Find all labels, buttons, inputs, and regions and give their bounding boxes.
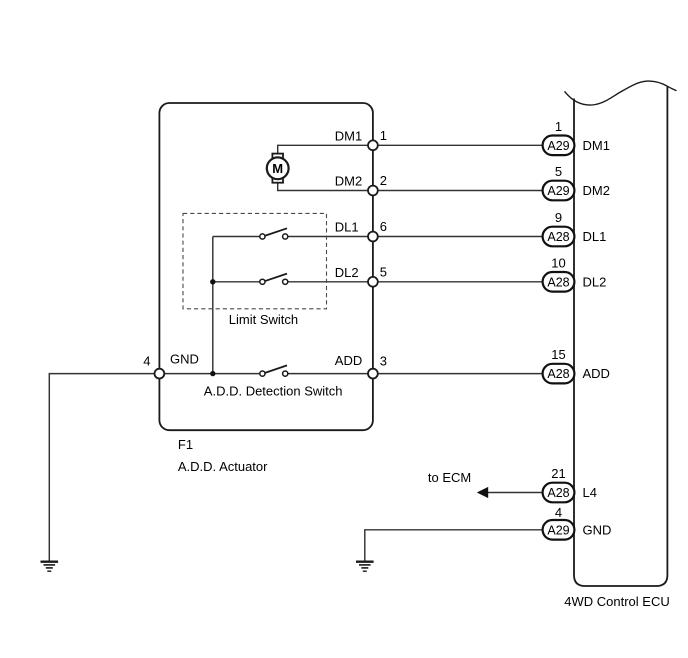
svg-text:10: 10 (551, 255, 565, 270)
wire DM1 motor to pin (278, 145, 373, 153)
motor M1 circle (267, 157, 289, 179)
svg-text:DL1: DL1 (335, 220, 359, 235)
wire vertical limit-switch bus (212, 237, 214, 374)
svg-text:6: 6 (380, 219, 387, 234)
connector A29 pin1 (543, 119, 575, 155)
svg-text:A29: A29 (547, 139, 569, 153)
svg-text:ADD: ADD (583, 366, 610, 381)
svg-text:5: 5 (380, 264, 387, 279)
wire DM2 motor to pin (278, 183, 373, 191)
svg-text:DL1: DL1 (583, 229, 607, 244)
svg-text:DM1: DM1 (335, 128, 362, 143)
svg-text:A.D.D. Detection Switch: A.D.D. Detection Switch (204, 384, 343, 399)
svg-text:A.D.D. Actuator: A.D.D. Actuator (178, 459, 268, 474)
wire DL1 corner to switch (213, 236, 260, 238)
svg-text:F1: F1 (178, 437, 193, 452)
switch ADD detection (260, 365, 288, 376)
svg-text:15: 15 (551, 347, 565, 362)
svg-text:L4: L4 (583, 485, 597, 500)
svg-text:A28: A28 (547, 367, 569, 381)
pin 5 circle (368, 277, 378, 287)
svg-text:A28: A28 (547, 486, 569, 500)
wire ADD switch to pin (288, 373, 373, 375)
svg-text:ADD: ADD (335, 353, 362, 368)
wire L4 arrow line (487, 492, 543, 494)
svg-text:A28: A28 (547, 230, 569, 244)
pin 2 circle (368, 186, 378, 196)
svg-text:A29: A29 (547, 184, 569, 198)
wire DL1 switch to pin (288, 236, 373, 238)
svg-text:9: 9 (555, 210, 562, 225)
ground symbol left (41, 562, 59, 572)
pin 3 circle (368, 369, 378, 379)
svg-text:4: 4 (555, 505, 562, 520)
wire GND row inside box (159, 373, 260, 375)
svg-text:GND: GND (583, 522, 612, 537)
svg-text:5: 5 (555, 164, 562, 179)
svg-text:GND: GND (170, 352, 199, 367)
wire DL2 pin to ECU (373, 281, 543, 283)
svg-text:Limit Switch: Limit Switch (229, 312, 298, 327)
wire DM2 pin to ECU (373, 190, 543, 192)
svg-text:M: M (272, 161, 283, 176)
switch DL1 (260, 228, 288, 239)
motor M1 brush bottom (272, 178, 283, 183)
junction dot GND row (210, 371, 215, 376)
wire ADD pin to ECU (373, 373, 543, 375)
pin 6 circle (368, 232, 378, 242)
svg-text:21: 21 (551, 466, 565, 481)
connector A28 pin10 (543, 255, 575, 291)
svg-text:DM1: DM1 (583, 138, 610, 153)
svg-text:DL2: DL2 (335, 265, 359, 280)
connector A29 pin5 (543, 164, 575, 200)
svg-text:1: 1 (555, 119, 562, 134)
junction dot DL2 (210, 279, 215, 284)
wire GND pin to left ground (49, 374, 159, 562)
pin 4 circle GND (155, 369, 165, 379)
svg-text:3: 3 (380, 354, 387, 369)
connector A28 pin15 (543, 347, 575, 383)
motor M1 brush top (272, 154, 283, 159)
connector A28 pin21 (543, 466, 575, 502)
svg-text:A28: A28 (547, 275, 569, 289)
wire DM1 pin to ECU (373, 144, 543, 146)
pin 1 circle (368, 140, 378, 150)
connector A29 pin4 (543, 505, 575, 540)
connector A28 pin9 (543, 210, 575, 246)
svg-text:4WD Control ECU: 4WD Control ECU (564, 594, 669, 609)
svg-text:to ECM: to ECM (428, 470, 471, 485)
svg-text:A29: A29 (547, 523, 569, 537)
4WD Control ECU body (574, 86, 667, 586)
switch DL2 (260, 274, 288, 285)
limit switch dashed box (183, 213, 327, 308)
svg-text:DM2: DM2 (335, 174, 362, 189)
svg-text:2: 2 (380, 173, 387, 188)
svg-text:1: 1 (380, 128, 387, 143)
svg-text:4: 4 (143, 354, 150, 369)
ground symbol right (356, 562, 374, 572)
wire DL2 switch to pin (288, 281, 373, 283)
svg-text:DL2: DL2 (583, 274, 607, 289)
svg-text:DM2: DM2 (583, 183, 610, 198)
arrowhead to ECM (477, 487, 488, 498)
wire DL1 pin to ECU (373, 236, 543, 238)
wire ECU GND to ground (365, 530, 543, 562)
ECU torn top wavy edge (565, 81, 677, 105)
wire DL2 junction to switch (213, 281, 260, 283)
A.D.D. Actuator box F1 (159, 103, 373, 430)
